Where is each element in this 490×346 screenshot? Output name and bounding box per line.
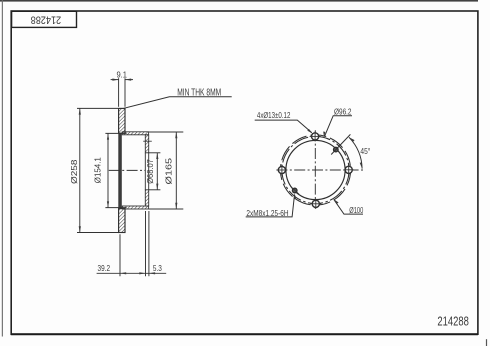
hub bore edge lines [144, 153, 146, 190]
bolt circle D96.2 (dash-dot) [282, 136, 349, 203]
dimension D258 (disc outer diameter) [77, 108, 118, 232]
M8 hole upper-right (filled) [334, 147, 339, 152]
section axis centerline [109, 169, 146, 171]
45deg dimension arc [349, 137, 362, 168]
hub mounting face upper part (hatched) [145, 135, 148, 153]
svg-text:Ø165: Ø165 [163, 158, 173, 185]
bolt hole left (D13) [278, 166, 285, 173]
45deg radial line through upper-right M8 [331, 134, 350, 154]
bottom dimensions 39.2 and 5.3 [97, 211, 167, 276]
MIN THK 8MM label with leader [124, 97, 232, 109]
bolt hole right (D13) [345, 166, 352, 173]
svg-text:214288: 214288 [437, 315, 469, 329]
scan edge bottom-right corner [486, 339, 487, 346]
frame bottom thick line [11, 333, 478, 335]
bolt hole top (D13) [312, 133, 319, 140]
svg-text:Ø154.1: Ø154.1 [92, 157, 102, 183]
scan edge left [2, 0, 3, 337]
M8 hole lower-left (filled) [292, 188, 297, 193]
svg-text:9.1: 9.1 [116, 70, 127, 79]
hat top wall (hatched) [122, 132, 148, 135]
svg-text:Ø258: Ø258 [69, 159, 79, 184]
horizontal centerline [276, 169, 363, 171]
title box top-left [12, 11, 77, 27]
M8 tapped hole tick on hub face [143, 140, 152, 142]
hat bottom wall (hatched) [122, 206, 148, 209]
bolt hole bottom (D13) [312, 200, 319, 207]
hub mounting face lower part (hatched) [145, 190, 148, 206]
svg-text:Ø100: Ø100 [349, 206, 363, 215]
disc braking band upper section (hatched) [119, 108, 125, 133]
dimension D165 (hub flange diameter) [149, 132, 183, 209]
disc band middle web (solid dark) [118, 133, 122, 208]
hub register circle (solid) [286, 140, 345, 199]
svg-text:Ø96.2: Ø96.2 [334, 106, 352, 116]
45deg tick through lower-left M8 [291, 186, 300, 194]
svg-text:5.3: 5.3 [153, 264, 162, 273]
svg-text:4xØ13±0.12: 4xØ13±0.12 [257, 111, 291, 120]
disc braking band lower section (hatched) [119, 209, 125, 233]
svg-text:MIN THK 8MM: MIN THK 8MM [177, 87, 221, 98]
scan edge top [0, 0, 478, 2]
svg-text:Ø68.07: Ø68.07 [145, 159, 155, 184]
vertical centerline [314, 130, 316, 208]
svg-text:214288: 214288 [31, 14, 62, 26]
dimension 9.1 (disc thickness) [111, 78, 133, 107]
svg-text:45°: 45° [360, 147, 370, 156]
circle D100 (dashed) [280, 135, 350, 205]
dimension D154.1 (hat diameter) [105, 133, 126, 207]
dimension D68.07 (hub bore) [149, 153, 161, 190]
svg-text:39.2: 39.2 [98, 264, 111, 273]
